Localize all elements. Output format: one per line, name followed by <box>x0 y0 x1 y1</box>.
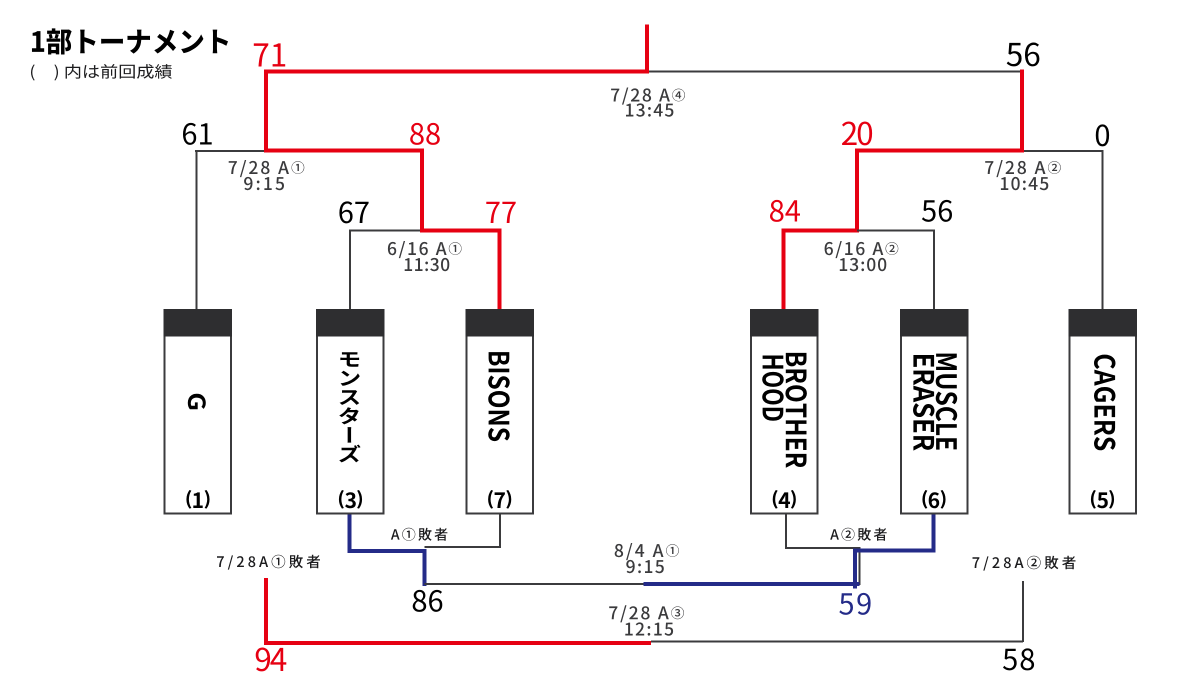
wire final red horizontal (winner side) <box>264 70 649 74</box>
score 88 BISONS semifinal (winner) <box>410 123 440 145</box>
label A2 loser <box>830 528 887 541</box>
wire loser funnel left dark horizontal <box>425 546 502 548</box>
label 7/28 A1 loser <box>217 555 320 570</box>
wire loser funnel right blue from (6) <box>932 514 936 553</box>
label match 7/28 A3 12:15 third place line1 <box>609 605 684 622</box>
team box CAGERS seed 5 <box>1070 310 1137 514</box>
wire right first-round red horizontal <box>782 229 860 233</box>
label match 8/4 A1 9:15 consolation line1 <box>615 543 679 560</box>
wire loser funnel left blue from (3) <box>348 514 352 553</box>
label match 7/28 A2 10:45 line2 <box>1001 177 1048 190</box>
label 7/28 A2 loser <box>973 556 1076 571</box>
wire third-place red vertical from A1 loser <box>264 578 268 645</box>
score 71 final left (winner) <box>254 43 285 66</box>
label match 7/28 A1 9:15 line1 <box>229 160 305 177</box>
wire left semifinal dark horizontal <box>195 150 266 152</box>
wire loser funnel right dark horizontal <box>785 547 860 549</box>
team box BISONS seed 7 <box>467 310 534 514</box>
team name HOOD (line 2 of BROTHER HOOD) <box>762 356 784 421</box>
wire loser funnel right blue drop <box>853 549 857 589</box>
score 61 G <box>183 123 212 145</box>
score 59 consolation right (blue) <box>839 593 870 615</box>
team name BISONS <box>488 352 510 441</box>
wire left semifinal riser up to final <box>264 70 268 153</box>
score 77 BISONS first round (winner) <box>486 202 515 223</box>
team name G <box>188 394 206 409</box>
wire left semifinal red horizontal <box>264 149 424 153</box>
seed (1) <box>193 492 202 508</box>
wire right semifinal dark horizontal <box>1022 150 1104 152</box>
team name モンスターズ <box>339 352 360 462</box>
label match 6/16 A1 11:30 line1 <box>388 241 462 258</box>
wire G connector vertical <box>196 150 198 310</box>
wire MUSCLE ERASER connector vertical <box>933 231 935 310</box>
wire third-place dark horizontal <box>651 641 1023 643</box>
seed (4) <box>779 492 790 508</box>
label match 6/16 A2 13:00 line1 <box>825 241 899 258</box>
wire BROTHERHOOD riser up to semifinal <box>855 149 859 233</box>
title 1部トーナメント <box>32 28 228 54</box>
wire loser funnel right dark drop <box>859 547 861 585</box>
label match 7/28 A4 13:45 final line2 <box>626 103 673 116</box>
team name BROTHER (line 1 of BROTHER HOOD) <box>785 353 807 468</box>
score 67 MONSTERS <box>339 201 368 223</box>
wire left first-round dark horizontal <box>349 230 422 232</box>
label match 7/28 A3 12:15 third place line2 <box>625 622 673 635</box>
wire right first-round dark horizontal <box>857 230 935 232</box>
score 58 third place right <box>1003 648 1034 670</box>
team name CAGERS <box>1094 355 1116 451</box>
team name MUSCLE (line 1 of MUSCLE ERASER) <box>936 354 958 450</box>
seed (5) <box>1097 492 1108 508</box>
team box G seed 1 <box>165 310 232 514</box>
label match 7/28 A4 13:45 final line1 <box>611 88 685 105</box>
label match 8/4 A1 9:15 consolation line2 <box>626 560 664 573</box>
wire left first-round red horizontal <box>420 229 502 233</box>
wire BISONS connector vertical <box>498 229 502 310</box>
wire consolation blue horizontal <box>644 582 860 586</box>
score 86 consolation left <box>413 590 443 612</box>
wire loser funnel right dark from (4) <box>785 514 787 549</box>
wire loser funnel left blue horizontal <box>348 549 427 553</box>
wire final dark horizontal (loser side) <box>649 71 1023 73</box>
label match 6/16 A2 13:00 line2 <box>840 258 887 271</box>
wire third-place dark vertical from A2 loser <box>1022 581 1024 642</box>
wire champion riser <box>645 25 649 73</box>
team name ERASER (line 2 of MUSCLE ERASER) <box>913 355 935 451</box>
seed (6) <box>929 492 940 508</box>
score 94 third place left (winner) <box>256 648 287 672</box>
wire loser funnel right blue horizontal <box>853 549 936 553</box>
score 84 BROTHERHOOD first round (winner) <box>770 200 800 222</box>
wire consolation dark horizontal <box>425 583 644 585</box>
wire CAGERS connector vertical <box>1102 150 1104 310</box>
wire BISONS riser up to semifinal <box>420 149 424 233</box>
label match 6/16 A1 11:30 line2 <box>405 258 450 271</box>
seed (3) <box>345 492 356 508</box>
wire BROTHERHOOD connector vertical <box>782 229 786 310</box>
seed (7) <box>495 492 505 508</box>
team box BROTHERHOOD seed 4 <box>751 310 818 514</box>
score 56 final right <box>1007 43 1040 67</box>
label A1 loser <box>391 528 448 541</box>
wire right semifinal red horizontal <box>855 149 1024 153</box>
score 0 CAGERS <box>1096 124 1109 146</box>
team box MONSTERS seed 3 <box>317 310 384 514</box>
wire loser funnel left dark from (7) <box>499 514 501 548</box>
wire MONSTERS connector vertical <box>349 231 351 310</box>
label match 7/28 A2 10:45 line1 <box>985 160 1061 177</box>
subtitle （ ）内は前回成績 <box>31 64 172 80</box>
wire right semifinal riser up to final <box>1020 70 1024 153</box>
wire third-place red horizontal <box>264 641 651 645</box>
label match 7/28 A1 9:15 line2 <box>244 177 284 190</box>
score 56 MUSCLE ERASER <box>922 200 952 222</box>
score 20 BROTHERHOOD semifinal (winner) <box>842 122 872 146</box>
wire loser funnel left blue drop <box>423 549 427 586</box>
team box MUSCLE ERASER seed 6 <box>901 310 968 514</box>
